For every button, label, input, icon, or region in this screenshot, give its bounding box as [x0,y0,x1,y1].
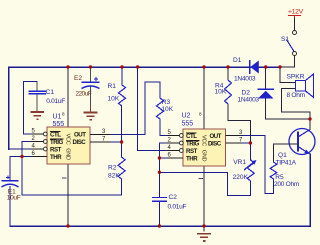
U1 reference label [53,114,65,129]
svg-text:82K: 82K [108,173,120,180]
svg-text:GND: GND [65,148,71,160]
svg-text:CTL: CTL [50,132,61,139]
ground under U2 [197,234,211,241]
svg-text:8: 8 [199,112,202,117]
svg-text:1N4003: 1N4003 [234,76,256,83]
ground under E2 [84,105,98,120]
U2 pin 2 TRIG [167,138,183,145]
wire E1 bottom to ground bus [9,187,11,227]
wire collector to node [309,119,311,130]
svg-text:U2: U2 [182,113,191,120]
diode D2 [258,89,275,98]
wire R1 bottom to R2 top (DISC node) [121,106,123,157]
wire R4 top lead [227,67,229,80]
capacitor E2 electrolytic [82,77,100,89]
wire U2 THR to TRIG node [159,157,167,159]
svg-text:10uF: 10uF [7,195,21,202]
junction dot DISC2/VR1 [249,141,252,144]
C1 labels [46,89,66,105]
E1 labels [7,189,21,202]
svg-text:8 Ohm: 8 Ohm [287,92,306,99]
R3 labels [161,99,173,113]
svg-text:TRIG: TRIG [50,139,63,146]
power +12V [288,9,304,18]
svg-text:THR: THR [50,154,62,161]
svg-text:Q1: Q1 [278,152,287,159]
svg-text:GND: GND [201,150,207,162]
svg-text:RST: RST [186,148,198,155]
U1 pin 1 number [62,177,67,179]
svg-text:10K: 10K [215,88,227,95]
junction dot VCC/speaker [278,65,281,68]
wire U1 GND pin (pin 1) [67,164,69,226]
svg-text:D1: D1 [233,57,242,64]
wire U1 VCC pin (pin 8) [67,67,69,127]
R5 labels [274,174,300,188]
svg-text:C1: C1 [46,89,55,96]
junction dot VCC/D2 [264,65,267,68]
U1 pin 7 DISC [90,137,110,143]
wire +12V to switch [294,17,296,31]
U1 pin 4 RST [31,144,47,151]
wire U1 OUT to R3 top [110,82,160,135]
junction dot DISC1 [120,140,123,143]
junction dot VCC/U2 RST rail [136,65,139,68]
wire speaker bottom terminal to collector [282,89,311,119]
U2 pin 1 number [199,177,204,179]
R4 labels [215,82,227,95]
R2 labels [108,165,120,180]
svg-text:R5: R5 [275,174,284,181]
junction dot GND/U1 [66,224,69,227]
E2 labels [74,75,92,97]
SPKR labels [287,74,306,99]
svg-text:VCC: VCC [65,134,71,145]
VR1 labels [233,159,249,181]
svg-text:8: 8 [62,112,65,117]
resistor R1 [119,85,126,106]
diode D1 [250,60,259,74]
wire U2 DISC to node [242,142,251,144]
capacitor C2 [152,198,167,202]
U1 pin 6 THR [31,151,47,157]
U1 pin 5 CTL [31,129,47,136]
U2 reference label [182,113,194,128]
wire U1 DISC to node [110,141,122,143]
wire CTL U1 to C1 [24,82,38,134]
wire U2 VCC pin (pin 8) [203,67,205,129]
R1 labels [108,83,120,102]
svg-text:220uF: 220uF [76,90,92,97]
U2 pin 3 OUT [226,130,244,136]
svg-text:TIP41A: TIP41A [276,160,297,167]
svg-text:1N4003: 1N4003 [238,97,260,104]
svg-text:555: 555 [53,121,65,128]
svg-text:U1: U1 [53,114,62,121]
resistor R2 [118,157,125,179]
svg-text:0.01uF: 0.01uF [168,203,187,210]
wire D2 bottom to collector node [266,99,310,120]
junction dot VCC/E2 [89,65,92,68]
U2 pin 6 THR [167,153,183,159]
junction dot VCC/R4 [226,65,229,68]
U1 pin 3 OUT [90,129,110,135]
wire U2 RST to VCC bus [138,67,167,151]
svg-text:E2: E2 [74,75,82,82]
svg-text:220K: 220K [233,174,249,181]
svg-text:OUT: OUT [74,132,86,139]
wire speaker top terminal [280,67,295,83]
wire U2 OUT down to R5 bottom [242,136,274,194]
D1 labels [233,57,256,83]
junction dot GND/U2 [202,224,205,227]
wire VR1 top lead [249,143,251,160]
junction dot VCC/R1 [120,65,123,68]
junction dot GND/C2 [158,224,161,227]
svg-text:OUT: OUT [210,133,222,140]
svg-text:DISC: DISC [208,141,222,148]
svg-text:0.01uF: 0.01uF [46,98,65,105]
wire C1 bottom lead to ground [36,95,38,106]
U2 pin 5 CTL [167,130,183,137]
resistor R3 [157,98,164,119]
wire bottom ground bus [10,154,310,226]
wire D2 top lead [265,67,267,89]
svg-text:VR1: VR1 [233,159,246,166]
capacitor C1 [29,91,47,94]
wire R5 top to Q1 base [274,144,297,162]
wire RST U1 to rail [9,148,31,150]
ground under C1 [31,105,45,119]
svg-text:TRIG: TRIG [186,141,199,148]
wire U2 GND pin (pin 1) to ground [203,166,205,231]
transistor Q1 TIP41A [289,129,315,155]
resistor R4 [225,80,232,104]
potentiometer VR1 [244,160,257,181]
svg-text:DISC: DISC [73,139,87,146]
wire top VCC bus [9,67,280,149]
svg-text:10K: 10K [161,106,173,113]
wire U2 TRIG down to C2 [159,143,167,197]
U1 pin 2 TRIG [31,136,47,143]
speaker SPKR [296,74,314,98]
U2 pin 4 RST [167,145,183,152]
resistor R5 [270,162,277,179]
Q1 labels [276,152,297,167]
svg-text:10K: 10K [108,95,120,102]
svg-text:R1: R1 [108,83,117,90]
U2 pin 7 DISC [226,138,244,144]
svg-text:THR: THR [186,156,198,163]
svg-text:VCC: VCC [201,135,207,146]
svg-text:200 Ohm: 200 Ohm [274,181,300,188]
op-amp U1 555 timer box [47,127,90,164]
junction dot THR2/VR1 [158,171,161,174]
svg-text:R3: R3 [162,99,171,106]
wire TRIG U1 down to R2 bottom [22,142,122,196]
wire R3 bottom to U2 CTL [160,119,167,136]
capacitor E1 electrolytic [2,176,19,188]
C2 labels [168,194,187,211]
wire R1 top lead [121,67,123,85]
svg-text:C2: C2 [169,194,178,201]
svg-text:CTL: CTL [186,133,197,140]
svg-text:R2: R2 [108,165,117,172]
svg-text:D2: D2 [242,90,251,97]
wire THR U1 / E1 line [10,157,31,181]
junction dot TRIG2/THR2 [158,156,161,159]
svg-text:555: 555 [182,121,194,128]
svg-text:+12V: +12V [288,9,304,16]
wire switch to bus [280,56,295,68]
switch S1 [287,31,297,56]
junction dot D2/collector [308,117,311,120]
junction dot VCC/U1 [66,65,69,68]
junction dot VCC/U2 pin8 [202,65,205,68]
wire R4 bottom elbow to DISC2 node [228,104,250,143]
svg-text:RST: RST [50,147,62,154]
junction dot TRIG1/THR1 [20,155,23,158]
op-amp U2 555 timer box [183,129,226,166]
svg-text:SPKR: SPKR [287,74,305,81]
D2 labels [238,90,260,104]
svg-text:S1: S1 [281,36,289,43]
wire THR net to VR1 bottom [159,172,250,195]
wire E2 leads [90,67,92,81]
wire C2 bottom to ground bus [158,202,160,227]
